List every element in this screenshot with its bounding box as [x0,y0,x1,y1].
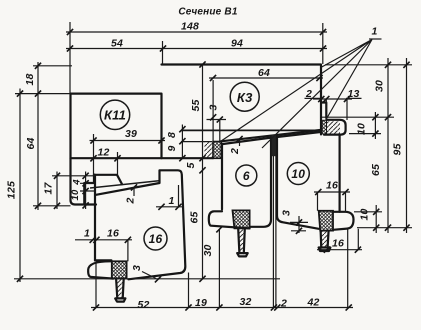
svg-text:8: 8 [166,132,178,138]
svg-text:64: 64 [25,137,37,149]
svg-text:19: 19 [195,297,207,309]
svg-text:5: 5 [185,162,197,168]
svg-text:3: 3 [208,104,220,110]
svg-text:18: 18 [24,73,36,85]
svg-text:1: 1 [84,228,90,240]
svg-text:148: 148 [181,21,199,33]
svg-text:12: 12 [97,147,109,159]
svg-text:Сечение В1: Сечение В1 [178,7,237,18]
svg-text:52: 52 [137,299,149,311]
svg-text:17: 17 [43,182,55,195]
svg-text:9: 9 [166,145,178,151]
svg-text:2: 2 [280,298,287,310]
svg-text:10: 10 [70,189,81,200]
svg-text:32: 32 [239,296,251,308]
svg-text:42: 42 [306,297,319,309]
svg-text:4: 4 [72,179,83,186]
svg-text:16: 16 [107,228,119,240]
svg-text:65: 65 [189,211,201,223]
svg-text:6: 6 [243,169,250,183]
svg-text:54: 54 [111,38,123,50]
svg-text:10: 10 [359,208,371,220]
svg-text:16: 16 [149,232,163,246]
svg-text:65: 65 [370,164,382,176]
svg-text:К3: К3 [237,90,253,105]
svg-text:64: 64 [258,67,270,79]
svg-text:30: 30 [374,80,386,92]
svg-text:3: 3 [281,210,293,216]
svg-text:125: 125 [6,181,18,199]
svg-text:К11: К11 [104,107,126,122]
svg-text:2: 2 [229,148,241,155]
svg-text:1: 1 [371,26,377,38]
svg-text:1: 1 [168,195,174,207]
svg-text:55: 55 [190,99,202,111]
svg-text:16: 16 [332,238,344,250]
svg-text:2: 2 [305,88,312,100]
svg-text:95: 95 [392,143,404,155]
svg-text:2: 2 [125,197,137,204]
svg-text:94: 94 [231,38,243,50]
svg-text:16: 16 [326,180,338,192]
svg-text:3: 3 [131,265,143,271]
svg-text:39: 39 [125,128,137,140]
svg-text:10: 10 [356,123,368,135]
svg-text:30: 30 [202,244,214,256]
svg-text:13: 13 [347,88,359,100]
svg-text:10: 10 [291,167,305,181]
